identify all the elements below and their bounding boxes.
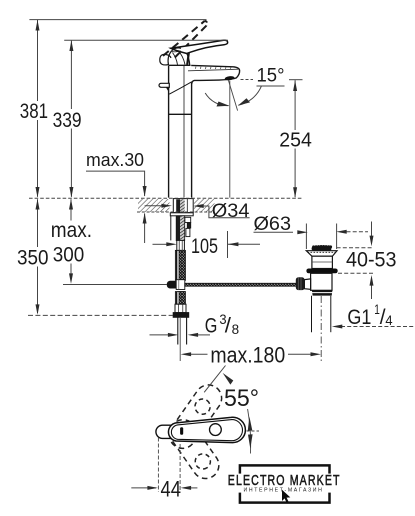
svg-text:/: / <box>225 315 231 338</box>
svg-text:max.30: max.30 <box>86 149 144 170</box>
arrow G38 pointing left <box>188 333 199 337</box>
svg-text:G: G <box>205 315 218 338</box>
44 dimension line <box>131 487 156 489</box>
G3/8 fitting <box>173 304 189 317</box>
svg-text:44: 44 <box>161 476 182 501</box>
arrow 381 up <box>36 20 40 31</box>
plan view swing line <box>248 409 251 454</box>
40-53 bottom dashed reference <box>338 272 375 274</box>
countertop hatching right of shank <box>194 199 215 212</box>
arrow 300 down <box>69 273 73 284</box>
svg-text:max.180: max.180 <box>210 343 285 368</box>
column inner highlight line <box>183 66 185 198</box>
15 degree dashed leader from spout <box>241 79 254 81</box>
column joint line <box>169 113 192 115</box>
dia63 leader underline <box>254 231 294 233</box>
pop-up horizontal rod to drain <box>185 283 297 286</box>
logo frame <box>240 465 330 502</box>
arrow 350 down at hose end <box>36 304 40 315</box>
plug brim <box>306 251 337 257</box>
40-53 vertical dimension line upper <box>371 222 373 237</box>
extension line top 381 <box>29 19 206 21</box>
dimension 105 line right segment <box>228 243 261 245</box>
arrow max30 up below deck <box>143 213 147 224</box>
mounting shank below deck <box>170 199 193 241</box>
swivel arc right <box>238 86 261 105</box>
body top line under handle <box>168 64 190 66</box>
braided hose lower <box>175 292 185 305</box>
plug knurled top <box>312 247 332 251</box>
electro market logo <box>228 465 341 502</box>
svg-text:105: 105 <box>191 235 218 258</box>
rod knurled knob <box>296 277 305 290</box>
G3/8 leader right <box>197 334 210 336</box>
dia63 right leader dashed <box>347 231 369 233</box>
arrow dia34 pointing left <box>193 204 204 208</box>
G1 1/4 dashed leader <box>341 326 415 328</box>
arrow G1 pointing left <box>332 325 343 329</box>
plan view handle tip dashed centerline <box>247 430 260 432</box>
left knob <box>156 425 171 438</box>
black flange <box>306 269 337 274</box>
drain body <box>311 273 332 290</box>
svg-text:Ø34: Ø34 <box>212 201 250 222</box>
deck bottom dashed line <box>137 211 215 213</box>
threaded stud upper part <box>176 199 180 213</box>
plan view solid handle <box>156 417 245 442</box>
dashed handle position upper <box>164 380 227 454</box>
arrow max180 pointing left <box>181 352 192 356</box>
arrowheads <box>36 20 374 490</box>
extension line top 339 <box>64 39 228 41</box>
side pop-up rod pin <box>159 83 169 92</box>
max.180 left extension line (faucet centerline) <box>179 318 181 361</box>
arrow 339 up <box>69 40 73 51</box>
arrow 44 pointing right <box>147 486 158 490</box>
svg-text:max.: max. <box>51 219 92 242</box>
arrow 350 up below deck <box>36 199 40 210</box>
svg-text:350: 350 <box>17 246 49 269</box>
arrow swivel right arc <box>238 98 250 105</box>
svg-text:Ø63: Ø63 <box>254 214 292 235</box>
arrow dia63 pointing right <box>297 230 308 234</box>
arrow 40-53 down <box>370 236 374 247</box>
lever handle raised dashed position <box>163 21 207 58</box>
dimension 254 tick at spout level <box>289 79 303 81</box>
arrow plan swing up <box>248 417 253 431</box>
pop-up linkage tee <box>167 280 185 290</box>
lever pivot dome sketch <box>160 48 190 65</box>
arrow 339 down at deck <box>69 187 73 198</box>
mounting clamp blocks <box>185 217 191 222</box>
dimension 339 vertical line <box>70 41 72 109</box>
inner outline <box>171 420 242 441</box>
aerator <box>224 76 234 81</box>
max.30 lower reference line below deck <box>144 214 146 244</box>
deck top dashed line <box>29 197 303 199</box>
aerator tilted stream line <box>228 80 237 110</box>
outer outline <box>168 417 245 442</box>
40-53 top dashed reference <box>337 247 373 249</box>
locknut <box>312 290 333 295</box>
arrow 55 degree leader <box>223 373 234 385</box>
arrow swivel left arc <box>217 102 230 107</box>
44 extension line right <box>179 444 181 492</box>
button circle <box>210 424 222 436</box>
dimension 350 vertical line <box>37 199 39 247</box>
dia34 leader right with step <box>203 206 250 218</box>
dia34 leader left <box>145 205 163 207</box>
svg-text:55°: 55° <box>224 385 259 412</box>
svg-text:254: 254 <box>279 128 312 151</box>
arrow 105 left pointing right <box>166 242 177 246</box>
dimension 381 vertical line <box>37 20 39 101</box>
arrow 254 down at deck <box>293 187 297 198</box>
countertop hatching left of shank <box>138 199 170 212</box>
drain neck <box>312 256 333 268</box>
dimension 254 vertical line <box>294 80 296 130</box>
44 extension line left <box>157 438 159 493</box>
aerator vertical extension line to deck <box>229 81 231 198</box>
350 bottom dashed reference line <box>28 314 173 316</box>
left sleeve <box>170 216 172 241</box>
spout transition chamfer <box>169 82 192 95</box>
arrow 381 down at deck <box>36 187 40 198</box>
arrow 254 up <box>293 80 297 91</box>
dia63 extension line left <box>305 224 307 250</box>
spout <box>169 65 239 94</box>
spout top shading ticks <box>195 67 231 69</box>
svg-text:4: 4 <box>385 312 392 328</box>
arrow max30 down at deck <box>143 186 147 197</box>
arrow dia34 pointing right <box>161 204 172 208</box>
svg-text:8: 8 <box>232 322 240 337</box>
40-53 vertical dimension line lower <box>371 285 373 300</box>
svg-text:15°: 15° <box>257 65 285 87</box>
55 degree leader line <box>204 366 225 393</box>
dimension 105 line left segment <box>153 243 168 245</box>
mouse cursor <box>282 490 290 503</box>
svg-text:381: 381 <box>20 100 48 123</box>
arrow 105 right pointing left <box>228 242 239 246</box>
15 degree underline <box>257 85 285 87</box>
max.300 bottom reference line <box>63 284 167 286</box>
front bump <box>160 54 171 65</box>
arrow 44 pointing left <box>181 486 192 490</box>
leader max.30 <box>86 171 145 196</box>
svg-text:40-53: 40-53 <box>346 249 397 272</box>
braided hose upper <box>175 250 185 280</box>
lever handle <box>171 40 228 53</box>
svg-text:G1: G1 <box>347 306 371 329</box>
shank cylinder through deck <box>173 199 193 213</box>
hose upper connector <box>177 240 185 250</box>
svg-text:339: 339 <box>53 109 82 132</box>
dimension max.300 vertical line <box>70 199 72 220</box>
logo slot <box>180 427 183 435</box>
threaded stud lower part <box>176 216 180 241</box>
svg-text:300: 300 <box>53 244 85 267</box>
tailpipe <box>311 296 313 332</box>
side port <box>304 279 310 289</box>
G3/8 pipe end <box>178 317 187 344</box>
arrow 40-53 up <box>370 275 374 286</box>
arrow dia63 right pointing left <box>336 230 347 234</box>
washer <box>170 213 193 216</box>
pop-up drain assembly <box>296 245 338 332</box>
max.180 right extension line (drain centerline) <box>320 296 322 361</box>
dia63 extension line right <box>336 224 338 250</box>
dashed handle position lower <box>164 414 224 483</box>
arrow G38 pointing right <box>168 333 179 337</box>
arrow max180 pointing right <box>311 352 322 356</box>
arrow plan swing down <box>248 434 253 448</box>
swivel arc left <box>205 93 228 106</box>
faucet body column <box>168 65 191 197</box>
dimension 105 right extension tick <box>227 231 229 258</box>
dimension texts <box>17 65 397 502</box>
max.180 dimension line <box>190 353 208 355</box>
arrow 300 up below deck <box>69 199 73 210</box>
G3/8 leader left <box>150 334 169 336</box>
